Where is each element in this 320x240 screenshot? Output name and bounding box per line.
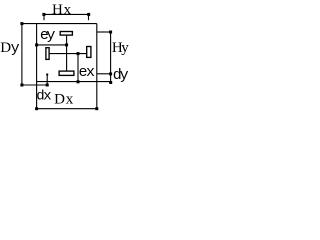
- wire Hx left tick tail: [43, 14, 45, 20]
- svg-text:y: y: [120, 67, 129, 84]
- dimension line Dx: [37, 108, 97, 110]
- tick Hx right: [87, 13, 90, 16]
- tick dy bottom: [109, 81, 112, 84]
- tick Hy bottom dy top: [109, 72, 112, 75]
- dimension line Dy vertical: [21, 24, 23, 85]
- tick Dx right: [95, 107, 98, 110]
- tick line A left: [35, 43, 38, 46]
- tick drop bottom on cell edge: [77, 80, 80, 83]
- plate bottom horizontal marker: [59, 71, 74, 75]
- dimension line Hy-dy vertical: [110, 32, 112, 82]
- wire node line A at y=45: [37, 44, 67, 46]
- svg-text:y: y: [11, 40, 20, 57]
- plate ex vertical marker: [87, 47, 91, 58]
- wire cell left edge: [36, 24, 38, 82]
- svg-text:D: D: [54, 92, 65, 108]
- tick Hy top: [109, 31, 112, 34]
- svg-text:x: x: [43, 89, 51, 105]
- tick Dx left: [35, 107, 38, 110]
- plate left vertical marker: [46, 48, 49, 60]
- wire drop to dx tick: [46, 74, 48, 86]
- wire node line B at y=53.6: [50, 53, 87, 55]
- svg-text:y: y: [121, 40, 129, 56]
- tick dx right: [46, 84, 49, 87]
- dimension line Hx: [44, 13, 89, 15]
- tick line A right: [65, 43, 68, 46]
- tick Dy top: [20, 22, 23, 25]
- tick dx drop top: [46, 74, 48, 76]
- dimension line dx connector: [22, 84, 47, 86]
- tick Dy bottom: [20, 84, 23, 87]
- wire Hy top connector: [97, 31, 111, 33]
- svg-text:x: x: [64, 2, 72, 18]
- plate ey horizontal marker: [60, 32, 72, 36]
- wire dy top connector: [97, 73, 111, 75]
- svg-text:x: x: [86, 64, 95, 81]
- tick line B drop: [77, 52, 80, 55]
- wire ey plate stem down to bottom plate: [66, 36, 68, 71]
- svg-text:y: y: [46, 27, 55, 44]
- wire cell left edge extension down to Dx line: [36, 82, 38, 109]
- wire cell top edge extended left to Dy tick: [22, 23, 97, 25]
- tick Hx left: [42, 13, 45, 16]
- svg-text:x: x: [66, 92, 74, 108]
- wire Hx right tick tail: [88, 14, 90, 20]
- wire cell right edge extended down to Dx line: [96, 24, 98, 109]
- svg-text:H: H: [52, 2, 63, 18]
- wire drop from line B tick to cell bottom: [77, 54, 79, 82]
- wire cell bottom edge extended right to dy tick: [37, 81, 111, 83]
